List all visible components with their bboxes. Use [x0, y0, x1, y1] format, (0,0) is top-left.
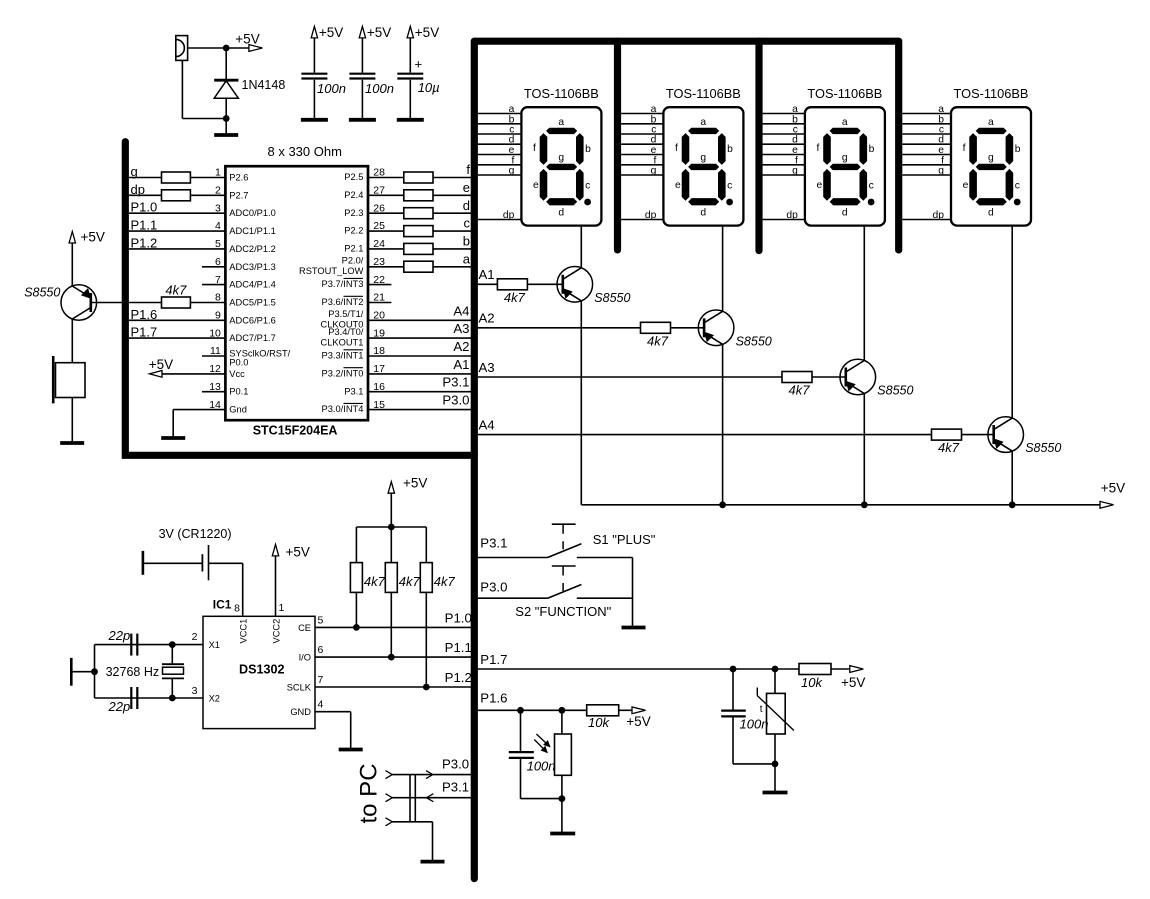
svg-text:b: b — [1015, 144, 1021, 155]
node junction — [169, 695, 176, 702]
wire — [580, 301, 582, 505]
svg-text:+5V: +5V — [319, 25, 343, 40]
value label 4k7 — [434, 574, 456, 589]
wire (segment b) — [763, 123, 805, 125]
wire — [368, 248, 404, 250]
wire (segment b) — [478, 123, 522, 125]
pin label b — [651, 114, 657, 125]
IC U1 STC15F204EA body — [225, 166, 368, 420]
net label c — [464, 216, 471, 231]
net label A3 — [453, 321, 469, 336]
wire — [390, 493, 392, 527]
svg-text:P2.4: P2.4 — [344, 190, 363, 200]
svg-text:S2 "FUNCTION": S2 "FUNCTION" — [515, 604, 611, 619]
net label A3 — [479, 360, 495, 375]
value label 100n — [527, 759, 556, 774]
transistor label S8550 — [594, 291, 630, 305]
net label P1.7 — [131, 325, 158, 340]
svg-text:g: g — [700, 153, 706, 164]
svg-text:4k7: 4k7 — [789, 383, 811, 398]
pin label dp — [645, 210, 657, 221]
wire — [392, 821, 432, 823]
value label 100n — [740, 716, 769, 731]
wire — [561, 799, 563, 834]
wire — [162, 373, 226, 375]
wire — [520, 710, 522, 751]
wire — [671, 327, 705, 329]
svg-text:4k7: 4k7 — [938, 440, 960, 455]
svg-text:P3.2/INT0: P3.2/INT0 — [322, 369, 364, 379]
wire — [129, 248, 225, 250]
wire (display common) — [580, 226, 582, 268]
pin number 5 — [318, 614, 324, 626]
+5V power arrow — [632, 707, 646, 714]
pin label c — [509, 125, 514, 136]
label to PC — [356, 763, 383, 823]
wire — [433, 230, 471, 232]
svg-text:c: c — [585, 181, 590, 192]
wire (segment a) — [621, 113, 663, 115]
pin label f — [512, 155, 515, 166]
pin 11 stub — [202, 355, 225, 357]
pin name ADC2/P1.2 — [229, 244, 276, 254]
svg-text:a: a — [988, 117, 994, 128]
svg-text:c: c — [464, 216, 471, 231]
svg-text:e: e — [463, 180, 470, 195]
svg-text:P2.5: P2.5 — [344, 172, 363, 182]
value label 4k7 — [789, 383, 811, 398]
pin number 26 — [373, 202, 385, 214]
wire — [355, 592, 357, 627]
pin name GND — [290, 707, 311, 717]
display DIS4 TOS-1106BB body — [951, 107, 1031, 225]
svg-text:+5V: +5V — [1101, 480, 1125, 495]
pin name ADC4/P1.4 — [229, 280, 276, 290]
value label 10µ — [418, 80, 440, 95]
switch label S1 "PLUS" — [593, 532, 656, 547]
wire — [313, 80, 315, 118]
wire (segment f) — [478, 164, 522, 166]
pin number 20 — [373, 310, 385, 322]
battery BT1 3V CR1220 — [202, 545, 208, 580]
pin label e — [792, 145, 798, 156]
svg-text:g: g — [842, 153, 848, 164]
display title TOS-1106BB — [954, 86, 1029, 101]
svg-text:b: b — [463, 234, 470, 249]
svg-text:b: b — [869, 144, 875, 155]
svg-text:STC15F204EA: STC15F204EA — [253, 424, 338, 438]
wire — [619, 709, 633, 711]
wire — [368, 409, 471, 411]
wire — [71, 319, 73, 363]
net label A2 — [479, 311, 495, 326]
node junction — [223, 45, 230, 52]
pin name P2.7 — [229, 190, 248, 200]
svg-text:c: c — [727, 181, 732, 192]
pin label a — [509, 104, 515, 115]
wire (segment b) — [902, 123, 951, 125]
pin number 22 — [373, 274, 385, 286]
connector arrow — [386, 818, 393, 826]
pin name P3.0/INT4 — [322, 403, 364, 414]
value label 10k — [801, 675, 823, 690]
signal arrow — [426, 771, 433, 779]
node junction — [719, 501, 726, 508]
svg-text:P3.1: P3.1 — [480, 536, 507, 551]
wire — [425, 592, 427, 687]
wire — [361, 38, 363, 73]
svg-text:f: f — [533, 143, 536, 154]
svg-text:g: g — [651, 166, 657, 177]
net label P1.0 — [131, 200, 158, 215]
net label P1.2 — [131, 235, 158, 250]
transistor Q4 S8550 — [988, 417, 1024, 453]
ground — [622, 626, 646, 630]
svg-text:Vcc: Vcc — [229, 369, 245, 379]
resistor 4k7 (pin 8) — [162, 297, 191, 308]
svg-text:g: g — [938, 166, 944, 177]
wire (segment d) — [621, 143, 663, 145]
svg-text:dp: dp — [786, 210, 798, 221]
pin number 4 — [318, 699, 324, 711]
svg-text:100n: 100n — [527, 759, 556, 774]
pin name X1 — [209, 640, 220, 650]
svg-text:8: 8 — [234, 603, 240, 615]
ground — [763, 791, 788, 795]
pin number 19 — [373, 327, 385, 339]
ground — [301, 118, 328, 122]
pin number 16 — [373, 381, 385, 393]
transistor Q2 S8550 — [698, 310, 734, 346]
net label A4 — [479, 417, 495, 432]
wire — [527, 283, 562, 285]
node junction — [353, 624, 360, 631]
net label d — [463, 198, 470, 213]
wire (segment c) — [621, 133, 663, 135]
wire — [95, 697, 204, 699]
pin name P3.5/T1/CLKOUT0 — [321, 309, 364, 329]
svg-text:P2.0/: P2.0/ — [342, 256, 364, 266]
wire (segment e) — [478, 154, 522, 156]
pin number 21 — [373, 292, 385, 304]
value label 4k7 — [165, 283, 187, 298]
pin number 5 — [215, 238, 221, 250]
svg-text:+5V: +5V — [81, 230, 105, 245]
svg-text:a: a — [842, 117, 848, 128]
svg-text:GND: GND — [290, 707, 311, 717]
pin label dp — [503, 210, 515, 221]
svg-text:f: f — [466, 162, 470, 177]
pin name P2.6 — [229, 173, 248, 183]
resistor 4k7 (Q3 base) — [782, 372, 812, 383]
resistor 10k (P1.6) — [587, 705, 619, 716]
wire — [173, 409, 225, 411]
svg-text:X2: X2 — [209, 694, 220, 704]
pull-up top rail wire — [356, 526, 426, 528]
svg-text:+5V: +5V — [626, 714, 650, 729]
+5V label — [81, 230, 105, 245]
capacitor C 10µ — [397, 74, 423, 79]
net label P1.6 — [480, 691, 507, 706]
7-segment digit (DIS3) — [824, 128, 875, 205]
+5V label — [403, 476, 427, 491]
net label P3.1 — [480, 536, 507, 551]
svg-text:TOS-1106BB: TOS-1106BB — [666, 86, 741, 101]
pin name CE — [298, 623, 311, 633]
node junction — [223, 115, 230, 122]
wire — [129, 230, 225, 232]
pin name Vcc — [229, 369, 245, 379]
wire (display common) — [722, 226, 724, 312]
wire — [350, 712, 352, 750]
resistor 4k7 (Q1 base) — [497, 279, 527, 290]
net label f — [466, 162, 470, 177]
svg-text:a: a — [558, 117, 564, 128]
pin name P2.0/RSTOUT_LOW — [299, 256, 364, 276]
wire — [409, 38, 411, 73]
svg-text:+5V: +5V — [235, 32, 259, 47]
wire — [129, 177, 162, 179]
wire — [188, 47, 227, 49]
pin number 25 — [373, 220, 385, 232]
bus line (display 4) — [895, 41, 902, 250]
svg-text:I/O: I/O — [299, 653, 311, 663]
net label a — [463, 251, 471, 266]
net label P3.0 — [480, 579, 507, 594]
wire — [368, 355, 471, 357]
value label 100n — [317, 81, 346, 96]
svg-text:P1.7: P1.7 — [480, 652, 507, 667]
+5V power arrow (pull-ups) — [388, 482, 394, 494]
wire (segment b) — [621, 123, 663, 125]
pin label f — [941, 155, 944, 166]
+5V power arrow (cap 1) — [311, 26, 317, 38]
transistor label S8550 — [736, 334, 772, 348]
pin name ADC1/P1.1 — [229, 226, 276, 236]
svg-text:TOS-1106BB: TOS-1106BB — [954, 86, 1029, 101]
wire — [91, 302, 162, 304]
capacitor C 100n (P1.6) — [509, 752, 534, 758]
svg-text:P0.1: P0.1 — [229, 387, 248, 397]
svg-text:CE: CE — [298, 623, 311, 633]
net label g — [131, 164, 138, 179]
resistor 330R (pin 23) — [404, 261, 433, 272]
svg-text:S8550: S8550 — [877, 384, 913, 398]
svg-text:to PC: to PC — [356, 763, 383, 823]
+5V label — [626, 714, 650, 729]
+5V power arrow (Vcc) — [150, 371, 163, 378]
svg-text:d: d — [558, 208, 564, 219]
pin number 1 — [215, 167, 221, 179]
segment labels — [675, 117, 733, 219]
node junction — [772, 761, 779, 768]
wire (segment dp) — [763, 219, 805, 221]
wire — [732, 669, 734, 710]
wire — [226, 47, 249, 49]
svg-text:S8550: S8550 — [24, 286, 60, 300]
wire — [315, 626, 471, 628]
pin name VCC1 — [239, 619, 249, 644]
pin label b — [509, 114, 515, 125]
svg-text:P1.1: P1.1 — [131, 218, 158, 233]
node junction — [388, 654, 395, 661]
wire — [95, 644, 204, 646]
pin number 27 — [373, 185, 385, 197]
wire — [478, 376, 782, 378]
svg-text:a: a — [700, 117, 706, 128]
svg-text:P3.5/T1/: P3.5/T1/ — [328, 309, 364, 319]
svg-text:P2.6: P2.6 — [229, 173, 248, 183]
+5V label — [235, 32, 259, 47]
power jack connector J1 — [176, 36, 188, 61]
svg-text:e: e — [533, 180, 539, 191]
wire (segment a) — [902, 113, 951, 115]
switch S2 FUNCTION — [478, 566, 633, 598]
pin label c — [939, 125, 944, 136]
svg-text:IC1: IC1 — [213, 598, 232, 612]
svg-text:A3: A3 — [453, 321, 469, 336]
switch label S2 "FUNCTION" — [515, 604, 611, 619]
svg-text:22p: 22p — [108, 699, 131, 714]
pin number 9 — [215, 310, 221, 322]
net label P3.0 — [442, 757, 469, 772]
photoresistor LDR — [534, 734, 571, 775]
resistor 330R (pin 27) — [404, 190, 433, 201]
svg-text:f: f — [675, 143, 678, 154]
svg-text:32768 Hz: 32768 Hz — [106, 665, 160, 679]
wire — [275, 556, 277, 616]
wire — [392, 774, 471, 776]
svg-text:3V (CR1220): 3V (CR1220) — [159, 527, 232, 541]
node junction — [1009, 501, 1016, 508]
svg-text:+5V: +5V — [403, 476, 427, 491]
svg-text:RSTOUT_LOW: RSTOUT_LOW — [299, 266, 364, 276]
resistor 4k7 (pull-up 2) — [385, 563, 397, 593]
pin number 3 — [192, 685, 198, 697]
wire — [190, 177, 225, 179]
svg-text:3: 3 — [192, 685, 198, 697]
net label P1.2 — [445, 670, 472, 685]
wire (segment f) — [902, 164, 951, 166]
svg-text:P3.3/INT1: P3.3/INT1 — [322, 351, 364, 361]
IC IC1 DS1302 body — [203, 616, 315, 728]
pin label g — [792, 166, 798, 177]
wire — [368, 391, 471, 393]
connector arrow — [386, 794, 393, 802]
resistor 4k7 (pull-up 1) — [350, 563, 362, 593]
svg-text:g: g — [792, 166, 798, 177]
svg-text:7: 7 — [318, 674, 324, 686]
pin number 2 — [192, 631, 198, 643]
+5V power arrow (cap 3) — [407, 26, 413, 38]
wire (segment dp) — [902, 219, 951, 221]
pin number 1 — [279, 602, 285, 614]
wire — [71, 243, 73, 286]
value label 4k7 — [647, 333, 669, 348]
pin 7 stub — [202, 284, 225, 286]
wire — [521, 798, 562, 800]
cable lines — [410, 775, 415, 823]
node junction — [517, 707, 524, 714]
wire — [355, 527, 357, 563]
net label A1 — [479, 267, 495, 282]
pin label g — [938, 166, 944, 177]
wire (segment a) — [478, 113, 522, 115]
7-segment digit (DIS2) — [682, 128, 733, 205]
svg-text:2: 2 — [192, 631, 198, 643]
pin name ADC0/P1.0 — [229, 208, 276, 218]
net label b — [463, 234, 470, 249]
wire — [425, 527, 427, 563]
svg-text:1N4148: 1N4148 — [242, 78, 286, 92]
svg-text:S8550: S8550 — [736, 334, 772, 348]
pin label a — [792, 104, 798, 115]
pin label f — [795, 155, 798, 166]
wire — [722, 344, 724, 505]
ground — [339, 748, 363, 752]
capacitor C 100n (P1.7) — [721, 711, 746, 717]
ground — [214, 133, 238, 137]
pin label f — [654, 155, 657, 166]
wire (segment d) — [763, 143, 805, 145]
wire — [361, 80, 363, 118]
+5V power arrow (DS1302) — [272, 544, 278, 556]
svg-text:A2: A2 — [479, 311, 495, 326]
node junction — [559, 795, 566, 802]
svg-text:d: d — [700, 208, 706, 219]
wire — [478, 709, 587, 711]
svg-text:+5V: +5V — [367, 25, 391, 40]
wire — [190, 194, 225, 196]
terminal bar — [70, 658, 73, 686]
pin name P3.7/INT3 — [322, 278, 364, 289]
value label 4k7 — [938, 440, 960, 455]
node junction — [388, 524, 395, 531]
pin 13 stub — [202, 391, 225, 393]
1N4148 label — [242, 78, 286, 92]
svg-text:ADC1/P1.1: ADC1/P1.1 — [229, 226, 276, 236]
ground — [397, 118, 424, 122]
wire — [478, 668, 799, 670]
wire (segment e) — [902, 154, 951, 156]
wire (display common) — [863, 226, 865, 361]
polarity + sign — [415, 57, 423, 72]
svg-text:X1: X1 — [209, 640, 220, 650]
pin label c — [793, 125, 798, 136]
svg-text:+5V: +5V — [415, 25, 439, 40]
wire — [71, 398, 73, 444]
wire — [520, 758, 522, 799]
bus line (main vertical) — [471, 41, 478, 878]
ground — [421, 860, 445, 864]
svg-text:e: e — [963, 180, 969, 191]
svg-text:4k7: 4k7 — [647, 333, 669, 348]
+5V label — [367, 25, 391, 40]
svg-text:P3.7/INT3: P3.7/INT3 — [322, 279, 364, 289]
7-segment digit (DIS4) — [970, 128, 1021, 205]
wire — [433, 194, 471, 196]
pin name Gnd — [229, 405, 247, 415]
value label 100n — [365, 81, 394, 96]
value label 22p — [108, 628, 131, 643]
7-segment digit (DIS1) — [540, 128, 591, 205]
pin number 18 — [373, 345, 385, 357]
pin name P2.3 — [344, 208, 363, 218]
net label P1.1 — [131, 218, 158, 233]
svg-text:f: f — [817, 143, 820, 154]
svg-text:P2.1: P2.1 — [344, 244, 363, 254]
IC designator IC1 — [213, 598, 232, 612]
